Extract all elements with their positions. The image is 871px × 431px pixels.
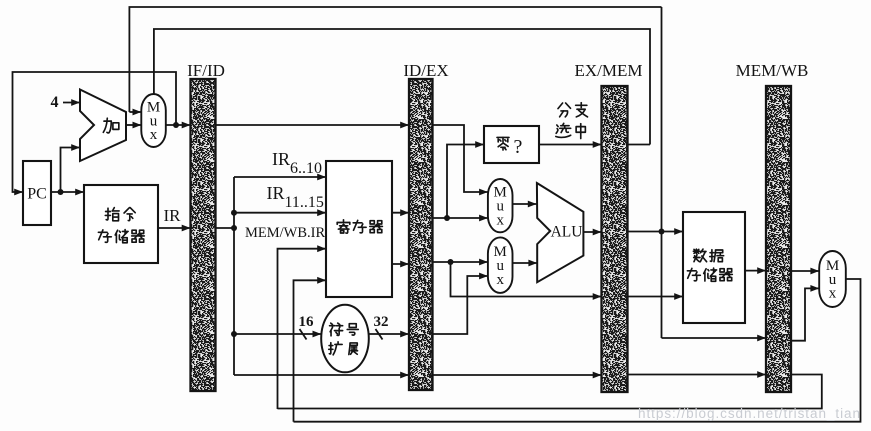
svg-text:ALU: ALU	[551, 224, 583, 241]
svg-text:https://blog.csdn.net/tristan_: https://blog.csdn.net/tristan_tian	[638, 406, 860, 421]
svg-text:16: 16	[299, 314, 315, 330]
svg-text:?: ?	[514, 136, 523, 158]
svg-text:x: x	[829, 286, 837, 302]
svg-text:PC: PC	[27, 186, 47, 203]
svg-text:x: x	[150, 127, 158, 143]
svg-text:x: x	[496, 272, 504, 288]
svg-text:EX/MEM: EX/MEM	[575, 61, 643, 80]
svg-text:32: 32	[374, 314, 389, 330]
svg-text:4: 4	[51, 94, 59, 111]
svg-text:x: x	[496, 212, 504, 228]
svg-text:ID/EX: ID/EX	[403, 61, 448, 80]
svg-text:MEM/WB: MEM/WB	[736, 61, 809, 80]
svg-text:MEM/WB.IR: MEM/WB.IR	[245, 225, 325, 241]
svg-text:IR: IR	[164, 206, 182, 225]
svg-text:IF/ID: IF/ID	[187, 61, 225, 80]
